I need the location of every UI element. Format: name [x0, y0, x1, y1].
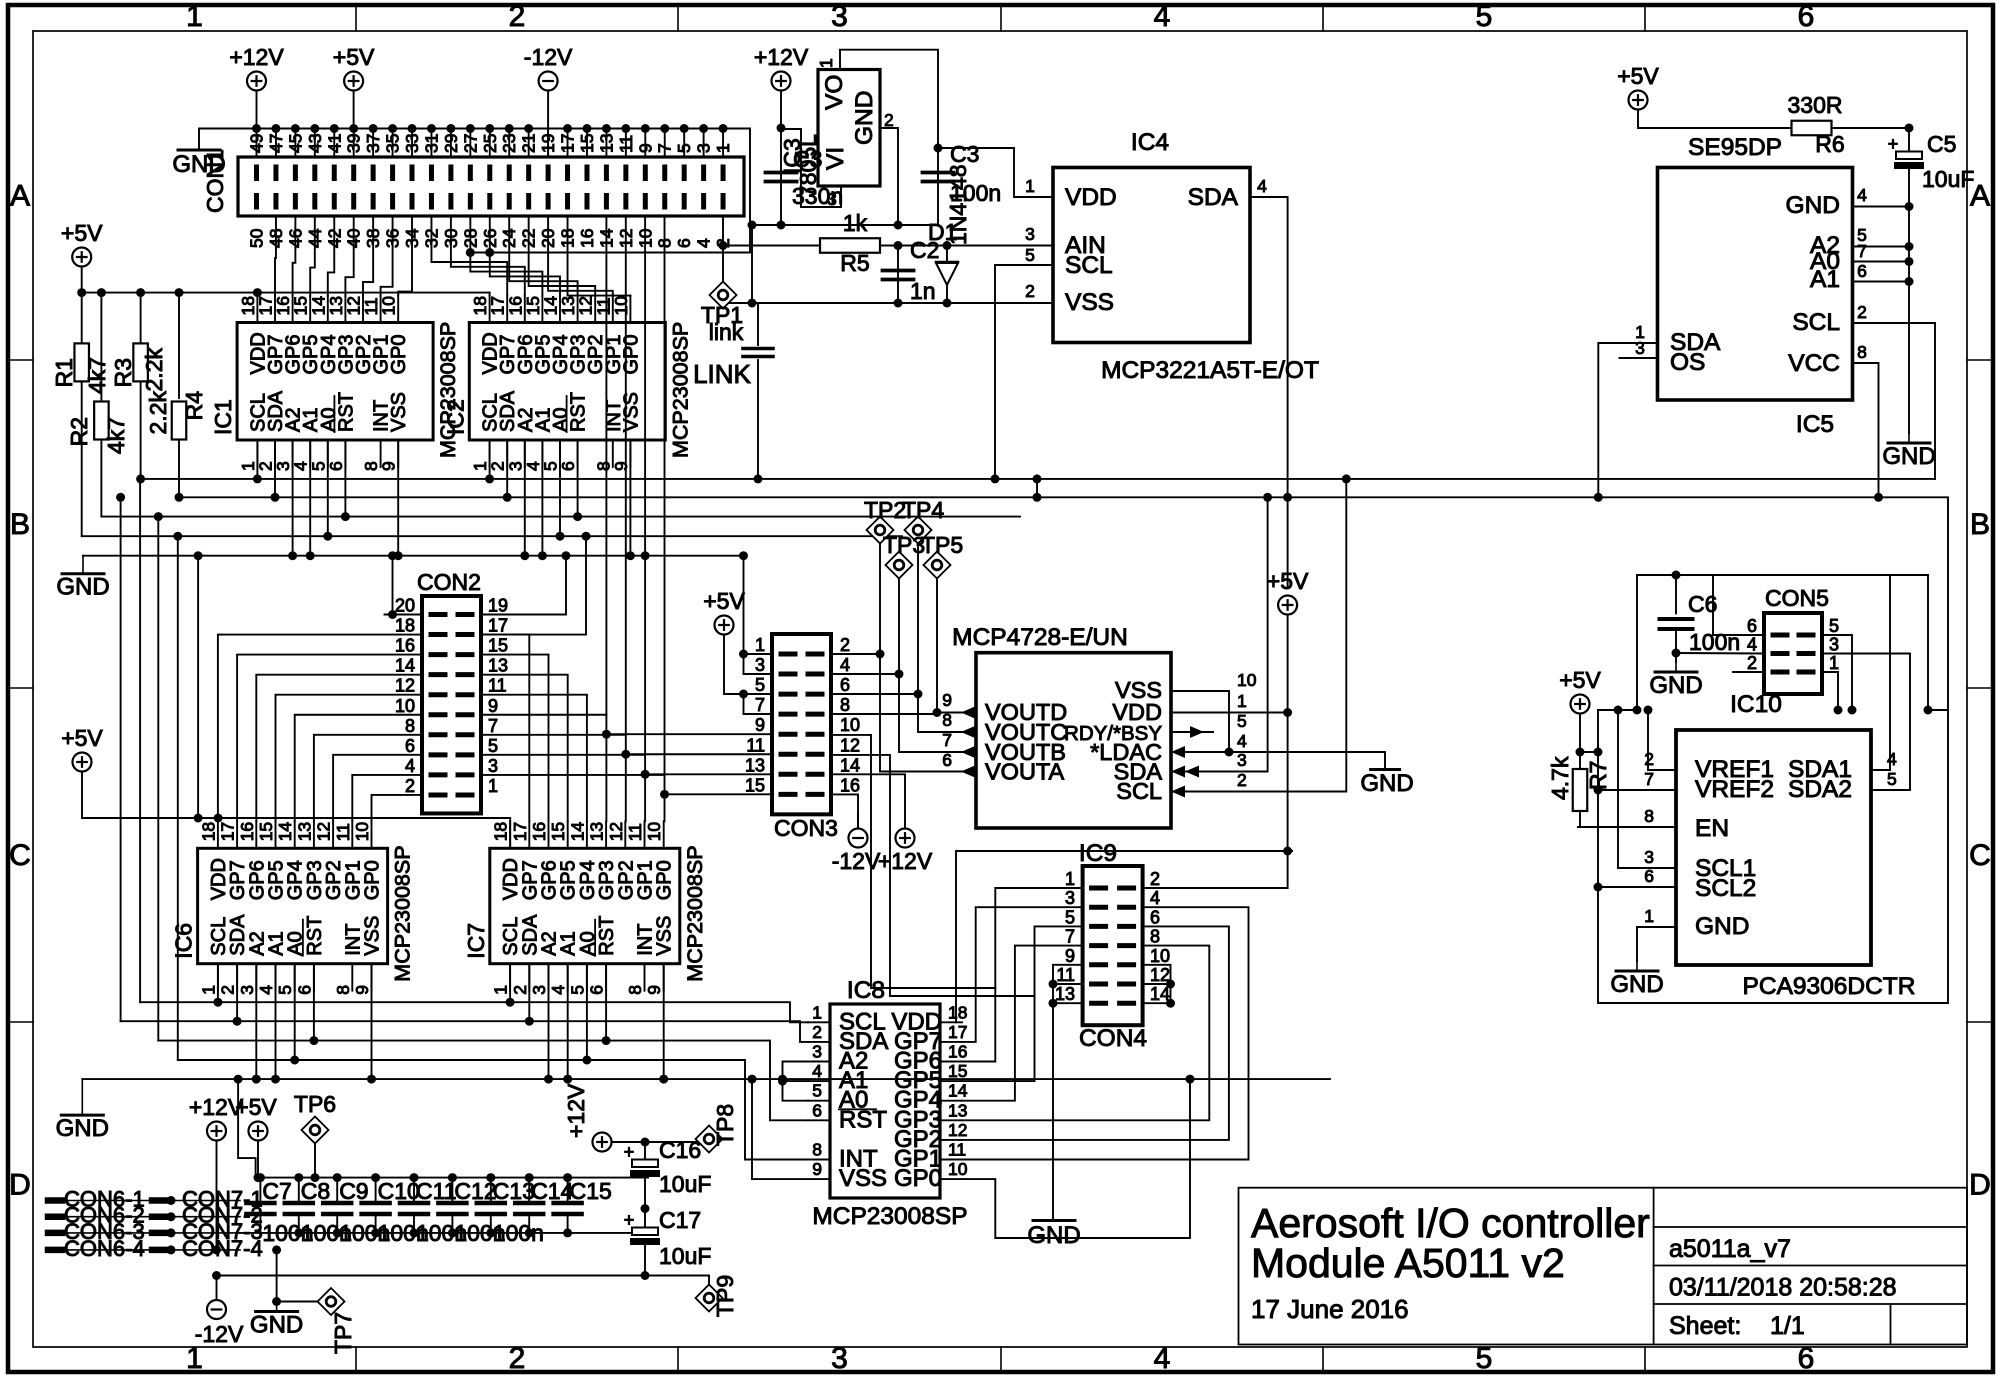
test point TP2 [867, 517, 894, 544]
ground symbol left [82, 556, 84, 574]
svg-text:7: 7 [488, 716, 498, 736]
wires CON3 left pins 5 7 from +5V [744, 693, 773, 695]
svg-text:11: 11 [948, 1140, 966, 1160]
wire IC3 pin 3 input [783, 129, 841, 207]
svg-text:GND: GND [1360, 770, 1413, 797]
wire C6 to CON5 pin 4 [1676, 652, 1764, 655]
svg-text:SE95DP: SE95DP [1688, 134, 1782, 161]
wire +5V rail [82, 292, 490, 294]
CON6 CON7 pin rows [48, 1200, 240, 1202]
svg-text:MCP23008SP: MCP23008SP [391, 845, 415, 981]
svg-text:03/11/2018 20:58:28: 03/11/2018 20:58:28 [1669, 1274, 1897, 1302]
svg-text:GP0: GP0 [388, 334, 410, 374]
PCA9306 pin 3 SCL1 wire [1618, 710, 1676, 868]
svg-text:SDA2: SDA2 [1788, 776, 1852, 803]
wire SDA1 riser to frame [1889, 575, 1891, 770]
wire IC8 VSS to gnd bus [752, 1079, 808, 1179]
svg-text:TP9: TP9 [712, 1275, 738, 1317]
PCA9306 pin 1 GND wire [1637, 927, 1676, 961]
svg-text:MCP23008SP: MCP23008SP [668, 322, 692, 458]
svg-text:17: 17 [510, 822, 530, 841]
svg-text:SDA: SDA [1188, 184, 1239, 211]
svg-text:C3: C3 [950, 141, 979, 167]
svg-text:C16: C16 [659, 1137, 701, 1163]
gnd wire below R5 to IC4 VSS [723, 302, 1053, 304]
wire IC8 GP0 stub nest [962, 1079, 1190, 1238]
connector CON1 [238, 157, 744, 216]
wire capacitor top bus [238, 1079, 256, 1178]
power +12V near IC3 [772, 72, 791, 91]
connector CON5 [1764, 613, 1822, 694]
svg-text:MCP3221A5T-E/OT: MCP3221A5T-E/OT [1101, 357, 1319, 384]
svg-text:GND: GND [1027, 1222, 1080, 1249]
svg-text:2: 2 [1025, 281, 1035, 301]
IC8 right pin stubs [940, 1021, 962, 1023]
wire CON4 pin 9 11 13 gnd group [1053, 965, 1083, 1221]
wire CON3 pin16 to -12V [831, 794, 858, 828]
svg-text:12: 12 [606, 822, 626, 841]
svg-text:VOUTA: VOUTA [985, 759, 1065, 785]
svg-text:1: 1 [1065, 869, 1075, 889]
svg-text:7: 7 [1857, 241, 1867, 261]
wire TP2 to VOUTA [880, 544, 976, 772]
wire CON5 pin 5 [1822, 635, 1852, 710]
gnd below PCA9306 [1636, 961, 1638, 971]
wire GND bus upper [83, 555, 744, 557]
svg-text:3: 3 [1065, 888, 1075, 908]
svg-text:2: 2 [1644, 749, 1654, 769]
svg-text:3: 3 [827, 189, 837, 209]
svg-text:15: 15 [256, 822, 276, 841]
svg-text:10: 10 [611, 296, 631, 316]
svg-text:CON4: CON4 [1079, 1025, 1147, 1052]
svg-text:8: 8 [333, 985, 353, 995]
IC5 pin 7 A0 wire [1853, 261, 1910, 263]
wires CON2 right pins to IC7 [481, 635, 529, 822]
svg-text:8: 8 [405, 716, 415, 736]
wires IC8 address pins tied to gnd bus [783, 1062, 809, 1101]
svg-text:1: 1 [1025, 176, 1035, 196]
svg-text:3: 3 [1644, 847, 1654, 867]
svg-text:-12V: -12V [524, 44, 573, 70]
wires CON3 left pins 1 3 from bus [744, 556, 773, 674]
IC5 pin 8 VCC wire [1853, 363, 1879, 497]
svg-text:9: 9 [755, 715, 765, 735]
io expander IC7 MCP23008SP [490, 848, 680, 963]
io expander IC1 MCP23008SP [237, 323, 433, 441]
svg-text:C11: C11 [416, 1178, 457, 1204]
capacitor C16 10uF [644, 1142, 646, 1160]
svg-text:3: 3 [529, 985, 549, 995]
connector CON2 [422, 596, 481, 813]
svg-text:6: 6 [942, 750, 952, 770]
io expander IC8 MCP23008SP [830, 1004, 940, 1198]
svg-text:GND: GND [250, 1312, 303, 1339]
svg-text:16: 16 [237, 822, 257, 841]
svg-text:TP7: TP7 [330, 1312, 356, 1354]
svg-text:6: 6 [1747, 616, 1757, 636]
diode D1 1N4148 [946, 246, 948, 304]
ground below IC5 [1908, 433, 1910, 443]
svg-text:4: 4 [1857, 185, 1867, 205]
power +5V near CON3 [715, 616, 734, 635]
resistor R4 2.2k [178, 293, 180, 398]
svg-text:RST: RST [304, 916, 326, 956]
svg-text:14: 14 [567, 822, 587, 842]
svg-text:CON3: CON3 [774, 815, 838, 841]
svg-text:OS: OS [1670, 349, 1705, 376]
io expander IC6 MCP23008SP [198, 848, 388, 963]
wire RST lower bus [158, 1041, 808, 1121]
svg-text:6: 6 [294, 985, 314, 995]
wire junction between buses [1036, 479, 1038, 497]
wires IC2 bottom pins to buses [489, 440, 491, 479]
svg-text:5: 5 [1025, 245, 1035, 265]
svg-text:VSS: VSS [620, 392, 642, 432]
capacitor C2 1n [897, 246, 899, 304]
svg-text:+: + [624, 1210, 635, 1230]
svg-text:10: 10 [948, 1159, 968, 1179]
svg-text:3: 3 [1635, 338, 1645, 358]
svg-text:6: 6 [587, 985, 607, 995]
svg-text:C: C [1969, 839, 1991, 872]
svg-text:+12V: +12V [754, 44, 809, 70]
svg-text:MCP23008SP: MCP23008SP [683, 845, 707, 981]
svg-text:1: 1 [755, 635, 765, 655]
power -12V bottom [207, 1300, 226, 1319]
svg-text:1: 1 [488, 776, 498, 796]
svg-text:4.7k: 4.7k [1547, 756, 1573, 800]
resistor R3 2.2k [140, 293, 142, 344]
svg-text:7: 7 [1065, 927, 1075, 947]
svg-text:15: 15 [745, 775, 765, 795]
wire MCP4728 VDD to +5V [1171, 712, 1288, 714]
svg-text:GND: GND [1695, 913, 1749, 940]
wire capacitor bottom bus [240, 1232, 645, 1234]
svg-text:5: 5 [812, 1081, 822, 1101]
svg-text:16: 16 [529, 822, 549, 841]
wire C3 to IC4 VDD [938, 148, 1053, 197]
IC5 pin 2 SCL wire [1853, 323, 1936, 479]
svg-text:GND: GND [1882, 443, 1935, 470]
svg-text:IC9: IC9 [1079, 840, 1117, 867]
svg-text:-12V: -12V [195, 1321, 244, 1347]
PCA9306 pin 6 SCL2 wire [1598, 886, 1676, 888]
wires CON4 right pins to IC8 [962, 907, 1249, 1159]
svg-text:3: 3 [488, 756, 498, 776]
power +12V below CON3 [896, 829, 915, 848]
gnd for LDAC [1371, 768, 1400, 771]
svg-text:RST: RST [839, 1106, 887, 1133]
resistor R5 1k [723, 245, 820, 247]
PCA9306 pin 2 VREF1 wire [1648, 710, 1676, 770]
svg-text:17: 17 [948, 1022, 967, 1042]
svg-text:11: 11 [746, 735, 765, 755]
svg-text:IC2: IC2 [442, 399, 468, 435]
svg-text:C3: C3 [793, 146, 822, 172]
svg-text:Module A5011 v2: Module A5011 v2 [1251, 1240, 1565, 1286]
power +5V at CON1 pin 39 [344, 72, 363, 91]
svg-text:SCL: SCL [1065, 252, 1113, 279]
capacitor C5 10uF [1908, 128, 1910, 150]
svg-text:6: 6 [812, 1100, 822, 1120]
power +5V right of MCP4728 [1287, 497, 1289, 588]
wire SCL bus [141, 478, 1935, 480]
test point TP5 [924, 552, 951, 579]
svg-text:18: 18 [948, 1002, 967, 1022]
svg-text:13: 13 [587, 822, 607, 841]
IC8 left pin stubs [808, 1021, 830, 1023]
svg-text:4: 4 [405, 756, 415, 776]
svg-text:3: 3 [237, 985, 257, 995]
svg-text:TP6: TP6 [294, 1091, 336, 1117]
svg-text:4: 4 [1747, 635, 1757, 655]
svg-text:11: 11 [488, 676, 507, 696]
svg-text:1: 1 [1829, 653, 1839, 673]
wire GND lower bus [82, 1078, 1330, 1080]
svg-text:8: 8 [625, 985, 645, 995]
IC5 pin 6 A1 wire [1853, 281, 1910, 283]
svg-text:12: 12 [948, 1120, 967, 1140]
wire A0 bus [82, 535, 902, 537]
svg-text:1N4148: 1N4148 [945, 164, 971, 245]
svg-text:18: 18 [491, 822, 511, 841]
svg-text:4k7: 4k7 [84, 357, 110, 394]
gnd below C6 [1675, 662, 1677, 672]
svg-text:17: 17 [488, 616, 508, 636]
svg-text:IC1: IC1 [210, 399, 236, 435]
svg-text:C: C [9, 839, 31, 872]
svg-text:8: 8 [1857, 342, 1867, 362]
resistor R7 4.7k [1571, 695, 1590, 714]
svg-text:+5V: +5V [61, 220, 103, 246]
svg-text:10: 10 [1150, 946, 1170, 966]
svg-text:10uF: 10uF [659, 1171, 711, 1197]
wire RST bus [101, 516, 1020, 518]
svg-text:17 June 2016: 17 June 2016 [1251, 1294, 1409, 1324]
test point TP3 [886, 552, 913, 579]
wire TP9 stub [708, 1276, 710, 1285]
IC5 pin 4 GND wire [1853, 206, 1910, 208]
svg-text:2: 2 [509, 0, 526, 33]
svg-text:1: 1 [198, 985, 218, 995]
svg-text:13: 13 [948, 1100, 967, 1120]
gnd rail near regulator [750, 224, 938, 226]
svg-text:GND: GND [56, 1115, 109, 1142]
svg-text:R3: R3 [110, 358, 136, 387]
svg-text:PCA9306DCTR: PCA9306DCTR [1743, 973, 1916, 1000]
svg-text:+5V: +5V [235, 1094, 277, 1120]
svg-text:13: 13 [488, 656, 508, 676]
wire IC3 pin 1 output [840, 50, 938, 148]
temperature sensor IC5 SE95DP [1658, 168, 1853, 401]
svg-text:13: 13 [294, 822, 314, 841]
PCA9306 pin 4 SDA1 wire [1871, 769, 1890, 771]
svg-text:+5V: +5V [1267, 568, 1309, 594]
IC4 pin 5 SCL wire [995, 265, 1053, 479]
svg-text:GND: GND [851, 91, 878, 145]
svg-text:6: 6 [326, 461, 346, 471]
svg-text:16: 16 [948, 1042, 967, 1062]
svg-text:2: 2 [1237, 770, 1247, 790]
op IC4 MCP3221A5T-E/OT adc [1053, 168, 1250, 343]
svg-text:12: 12 [840, 735, 860, 755]
PCA9306 pin 8 EN wire [1578, 826, 1676, 828]
svg-text:1: 1 [491, 985, 511, 995]
svg-text:R5: R5 [840, 250, 869, 276]
svg-text:2: 2 [405, 776, 415, 796]
capacitor bank C7-C15 100n [256, 1173, 265, 1182]
wires CON1 even pins to IC2 top pins [489, 293, 491, 296]
resistor R2 4k7 [100, 293, 102, 402]
svg-text:8: 8 [1644, 806, 1654, 826]
svg-text:C17: C17 [659, 1207, 701, 1233]
svg-text:+: + [1888, 134, 1899, 154]
IC4 pin 4 SDA wire [1250, 197, 1288, 497]
svg-text:GP0: GP0 [620, 334, 642, 374]
svg-text:3: 3 [831, 1342, 848, 1375]
svg-text:10: 10 [379, 296, 399, 316]
svg-text:18: 18 [395, 616, 415, 636]
svg-text:11: 11 [1056, 965, 1075, 985]
wire TP3 to VOUTB [899, 579, 976, 753]
svg-text:A1: A1 [1810, 266, 1840, 293]
svg-text:a5011a_v7: a5011a_v7 [1669, 1235, 1791, 1263]
svg-text:D: D [9, 1169, 31, 1202]
svg-text:4: 4 [548, 985, 568, 995]
svg-text:1/1: 1/1 [1770, 1312, 1805, 1340]
svg-text:4: 4 [1887, 749, 1897, 769]
wire SCL lower bus [140, 1002, 808, 1022]
svg-text:4: 4 [840, 655, 850, 675]
svg-text:1: 1 [1644, 906, 1654, 926]
svg-text:EN: EN [1695, 815, 1729, 842]
svg-text:GND: GND [1786, 192, 1840, 219]
gnd bottom center [276, 1250, 278, 1302]
wire CON4 pin 2 VDD riser [1143, 887, 1288, 889]
svg-text:4k7: 4k7 [103, 417, 129, 454]
wire CON5 pin 3 to SDA2 [1822, 654, 1910, 791]
IC5 pin 5 A2 wire [1853, 246, 1910, 248]
svg-text:TP4: TP4 [902, 497, 944, 523]
svg-text:9: 9 [611, 461, 631, 471]
svg-text:CON6-4: CON6-4 [64, 1236, 145, 1261]
svg-text:4: 4 [256, 985, 276, 995]
svg-text:1: 1 [186, 0, 203, 33]
test point TP9 [696, 1285, 723, 1312]
svg-text:SCL2: SCL2 [1695, 875, 1756, 902]
svg-text:B: B [1970, 508, 1990, 541]
svg-text:+12V: +12V [563, 1083, 589, 1138]
svg-text:VCC: VCC [1788, 350, 1840, 377]
svg-text:10: 10 [840, 715, 860, 735]
svg-text:2: 2 [218, 985, 238, 995]
svg-text:IC8: IC8 [847, 977, 885, 1004]
svg-text:10: 10 [1237, 670, 1257, 690]
svg-text:+5V: +5V [1559, 667, 1601, 693]
svg-text:20: 20 [395, 596, 415, 616]
svg-text:2: 2 [510, 985, 530, 995]
svg-text:5: 5 [488, 736, 498, 756]
wires IC7 bottom pins to buses [509, 964, 511, 1003]
PCA9306 pin 5 SDA2 wire [1871, 789, 1910, 791]
power +5V mid left and lower VDD rail [73, 753, 92, 772]
svg-text:3: 3 [1025, 224, 1035, 244]
svg-text:link: link [709, 319, 744, 345]
svg-text:15: 15 [488, 636, 508, 656]
wires CON2 right pins to CON1 verticals [481, 714, 606, 716]
test point TP4 [905, 517, 932, 544]
svg-text:IC7: IC7 [463, 923, 489, 959]
svg-text:9: 9 [379, 461, 399, 471]
wires IC1 bottom pins to buses [256, 440, 258, 479]
svg-text:4: 4 [1154, 0, 1171, 33]
svg-text:RST: RST [335, 392, 357, 432]
svg-text:6: 6 [840, 675, 850, 695]
svg-text:GND: GND [56, 574, 109, 601]
svg-text:3: 3 [1829, 635, 1839, 655]
svg-text:10: 10 [395, 696, 415, 716]
svg-text:6: 6 [674, 238, 694, 248]
wire CON3 pin12 down [831, 755, 1035, 996]
svg-text:GP0: GP0 [362, 860, 384, 900]
svg-text:2: 2 [1150, 869, 1160, 889]
svg-text:MCP4728-E/UN: MCP4728-E/UN [952, 624, 1128, 651]
svg-text:1: 1 [1237, 691, 1247, 711]
svg-text:VSS: VSS [1065, 289, 1114, 316]
svg-text:5: 5 [275, 985, 295, 995]
svg-text:4: 4 [1150, 888, 1160, 908]
svg-text:IC4: IC4 [1131, 129, 1169, 156]
ground symbol near CON1 [178, 149, 220, 152]
connector CON3 [772, 634, 831, 814]
svg-text:TP2: TP2 [864, 497, 906, 523]
power +5V near SE95DP [1629, 91, 1648, 110]
ground symbol lower left [81, 1079, 83, 1115]
svg-text:16: 16 [577, 229, 597, 248]
wire IC8 VDD riser to +5V rail [956, 851, 1292, 1022]
svg-text:14: 14 [275, 822, 295, 842]
svg-text:11: 11 [625, 823, 645, 841]
svg-text:4: 4 [694, 238, 714, 248]
svg-text:8: 8 [840, 695, 850, 715]
wire CON1 pins 26 24 junction [470, 252, 750, 254]
svg-text:330R: 330R [1788, 92, 1843, 118]
svg-text:1k: 1k [843, 210, 868, 236]
power -12V at CON1 pin 19 [539, 72, 558, 91]
svg-text:15: 15 [548, 822, 568, 841]
svg-text:LINK: LINK [693, 359, 751, 389]
svg-text:2: 2 [840, 635, 850, 655]
svg-text:RST: RST [596, 916, 618, 956]
svg-text:2: 2 [884, 110, 894, 130]
svg-text:10uF: 10uF [1922, 166, 1974, 192]
svg-text:8: 8 [942, 710, 952, 730]
capacitor C4 330n [766, 171, 797, 175]
wire CON1 gnd pins to gnd rail [744, 129, 750, 226]
svg-text:Sheet:: Sheet: [1669, 1312, 1741, 1340]
wire top rail right side [1637, 575, 1928, 710]
power +12V at CON1 pin 49 [247, 72, 266, 91]
svg-text:10: 10 [352, 822, 372, 842]
wires IC6 bottom pins to buses [217, 964, 219, 1003]
svg-text:R1: R1 [51, 358, 77, 387]
test point TP6 [302, 1117, 329, 1144]
power +5V bottom [249, 1122, 268, 1141]
svg-text:17: 17 [218, 822, 238, 841]
svg-text:TP8: TP8 [712, 1104, 738, 1146]
svg-text:3: 3 [812, 1042, 822, 1062]
